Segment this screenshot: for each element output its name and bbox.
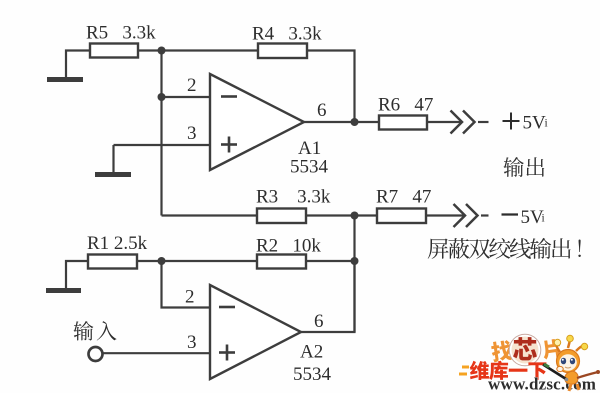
svg-text:A2: A2 <box>300 342 323 363</box>
wire <box>301 261 355 332</box>
wire <box>66 261 88 288</box>
junction node A1 pin2 <box>158 93 166 101</box>
op-amp A1 <box>210 74 304 170</box>
resistor R5 <box>90 44 138 58</box>
svg-text:R5 3.3k: R5 3.3k <box>86 23 156 44</box>
wire <box>114 144 211 146</box>
svg-text:5V: 5V <box>521 207 545 228</box>
svg-text:R2 10k: R2 10k <box>256 236 321 257</box>
resistor R7 <box>377 209 426 224</box>
wire <box>353 216 355 333</box>
svg-text:R6 47: R6 47 <box>378 95 433 116</box>
svg-text:2: 2 <box>187 75 197 96</box>
wire <box>160 51 162 216</box>
wire <box>426 214 464 216</box>
ground <box>95 172 131 177</box>
input terminal <box>89 347 103 361</box>
label shielded twisted pair output <box>428 239 449 259</box>
junction node A1 inverting top <box>158 47 166 55</box>
svg-text:i: i <box>545 118 548 130</box>
label input (shu ru) <box>74 321 94 341</box>
wire <box>304 121 379 123</box>
resistor R4 <box>258 44 307 59</box>
wire <box>66 51 90 78</box>
junction node A2 output/R2 <box>351 257 359 265</box>
watermark mascot <box>543 335 600 391</box>
output arrow <box>454 204 466 227</box>
svg-text:6: 6 <box>314 311 324 332</box>
ground <box>47 77 83 82</box>
svg-text:R3 3.3k: R3 3.3k <box>256 187 331 208</box>
wire <box>103 352 211 354</box>
resistor R6 <box>379 116 427 130</box>
svg-text:R7 47: R7 47 <box>376 187 431 208</box>
resistor R3 <box>257 209 306 224</box>
junction node A1 output <box>351 118 359 126</box>
svg-text:R4 3.3k: R4 3.3k <box>252 24 322 45</box>
op-amp A2 <box>210 285 301 379</box>
watermark logo zhao xin pian <box>490 333 561 367</box>
watermark weiku yixia <box>459 361 546 380</box>
junction node A2 pin2 <box>158 257 166 265</box>
label output (shu chu) <box>504 157 524 177</box>
svg-text:5534: 5534 <box>293 364 332 385</box>
junction node R3-R7 <box>351 212 359 220</box>
label +5Vi <box>503 113 520 130</box>
resistor R2 <box>257 255 306 269</box>
wire <box>306 260 355 262</box>
svg-text:R1 2.5k: R1 2.5k <box>87 233 148 254</box>
wire <box>162 96 211 98</box>
wire <box>162 261 211 308</box>
svg-text:5V: 5V <box>523 113 547 134</box>
watermark magnifier <box>511 336 540 365</box>
svg-text:5534: 5534 <box>290 157 329 178</box>
svg-text:2: 2 <box>185 287 195 308</box>
label -5Vi <box>502 213 519 215</box>
wire <box>307 51 355 123</box>
svg-text:6: 6 <box>317 100 327 121</box>
svg-text:3: 3 <box>187 123 197 144</box>
output arrow <box>451 111 463 134</box>
wire <box>162 214 258 216</box>
wire <box>112 145 114 172</box>
wire <box>138 49 258 51</box>
ground <box>46 288 81 293</box>
svg-text:3: 3 <box>187 332 197 353</box>
svg-text:i: i <box>542 213 545 225</box>
wire <box>306 214 377 216</box>
wire <box>427 121 461 123</box>
resistor R1 <box>88 255 137 269</box>
wire <box>137 260 257 262</box>
